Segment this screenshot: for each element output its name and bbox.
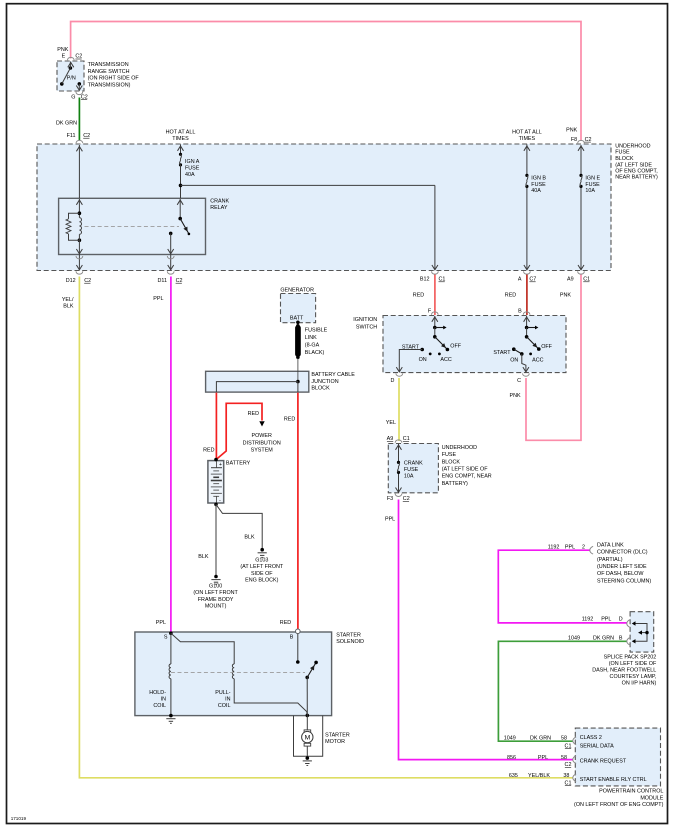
svg-text:PNK: PNK: [510, 393, 521, 399]
svg-text:OF ENG COMPT,: OF ENG COMPT,: [615, 168, 658, 174]
svg-text:BLOCK: BLOCK: [615, 156, 634, 162]
svg-text:SWITCH: SWITCH: [356, 325, 377, 331]
svg-text:BLK: BLK: [63, 304, 74, 310]
svg-text:FUSE: FUSE: [442, 452, 457, 458]
svg-text:SYSTEM: SYSTEM: [251, 448, 274, 454]
svg-text:DK GRN: DK GRN: [56, 120, 77, 126]
svg-text:IGN E: IGN E: [585, 175, 600, 181]
svg-text:RELAY: RELAY: [210, 205, 228, 211]
svg-text:856: 856: [507, 755, 516, 761]
svg-text:B12: B12: [420, 277, 430, 283]
svg-text:(PARTIAL): (PARTIAL): [597, 557, 623, 563]
svg-text:(AT LEFT SIDE: (AT LEFT SIDE: [615, 162, 652, 168]
svg-text:PNK: PNK: [566, 128, 577, 134]
svg-text:RED: RED: [413, 293, 424, 299]
svg-text:DISTRIBUTION: DISTRIBUTION: [243, 440, 281, 446]
svg-text:D12: D12: [66, 278, 76, 284]
svg-text:BLK: BLK: [244, 534, 255, 540]
svg-text:IN: IN: [161, 697, 166, 703]
svg-text:2: 2: [582, 544, 585, 550]
svg-text:YEL/: YEL/: [62, 297, 74, 303]
svg-text:F11: F11: [67, 133, 76, 139]
svg-text:ENG BLOCK): ENG BLOCK): [245, 578, 278, 584]
svg-text:YEL: YEL: [386, 420, 396, 426]
svg-text:START: START: [402, 344, 420, 350]
svg-text:SIDE OF: SIDE OF: [251, 571, 273, 577]
svg-text:HOT AT ALL: HOT AT ALL: [166, 130, 196, 136]
svg-text:P/N: P/N: [67, 76, 76, 82]
svg-text:PULL-: PULL-: [215, 690, 230, 696]
svg-text:CRANK REQUEST: CRANK REQUEST: [580, 759, 627, 765]
svg-text:CRANK: CRANK: [210, 198, 229, 204]
svg-text:CONNECTOR (DLC): CONNECTOR (DLC): [597, 550, 648, 556]
svg-text:POWERTRAIN CONTROL: POWERTRAIN CONTROL: [599, 789, 663, 795]
svg-text:SOLENOID: SOLENOID: [336, 639, 364, 645]
svg-text:STARTER: STARTER: [325, 732, 350, 738]
svg-text:G: G: [71, 94, 75, 100]
svg-text:IGN A: IGN A: [185, 159, 200, 165]
svg-text:HOT AT ALL: HOT AT ALL: [512, 130, 542, 136]
svg-text:PPL: PPL: [153, 296, 163, 302]
svg-text:START: START: [493, 350, 511, 356]
svg-text:(AT LEFT SIDE OF: (AT LEFT SIDE OF: [442, 467, 489, 473]
svg-text:D: D: [619, 617, 623, 623]
svg-text:F8: F8: [571, 137, 577, 143]
svg-text:FUSE: FUSE: [615, 150, 630, 156]
svg-text:START ENABLE RLY CTRL: START ENABLE RLY CTRL: [580, 777, 647, 783]
svg-text:OFF: OFF: [450, 344, 461, 350]
svg-text:ON I/P HARN): ON I/P HARN): [622, 681, 657, 687]
svg-text:M: M: [305, 735, 311, 742]
svg-text:1192: 1192: [548, 544, 560, 550]
svg-text:FUSE: FUSE: [585, 182, 600, 188]
svg-text:CRANK: CRANK: [404, 460, 423, 466]
svg-text:1049: 1049: [568, 635, 580, 641]
svg-text:MODULE: MODULE: [640, 795, 663, 801]
svg-text:IGNITION: IGNITION: [353, 317, 377, 323]
svg-text:635: 635: [509, 773, 518, 779]
svg-text:TIMES: TIMES: [172, 136, 189, 142]
svg-text:IGN B: IGN B: [531, 175, 546, 181]
svg-text:BLK: BLK: [198, 554, 209, 560]
svg-text:FUSIBLE: FUSIBLE: [305, 328, 328, 334]
svg-text:(ON LEFT FRONT: (ON LEFT FRONT: [193, 590, 238, 596]
svg-text:OF DASH, BELOW: OF DASH, BELOW: [597, 571, 644, 577]
svg-text:(UNDER LEFT SIDE: (UNDER LEFT SIDE: [597, 564, 647, 570]
svg-text:ON: ON: [510, 358, 518, 364]
svg-text:RED: RED: [505, 293, 516, 299]
svg-text:10A: 10A: [404, 473, 414, 479]
svg-text:1192: 1192: [582, 617, 594, 623]
svg-text:D11: D11: [158, 278, 168, 284]
svg-text:A9: A9: [567, 277, 574, 283]
svg-text:D: D: [390, 378, 394, 384]
svg-text:ACC: ACC: [532, 358, 543, 364]
svg-text:SPLICE PACK SP202: SPLICE PACK SP202: [604, 655, 657, 661]
svg-text:A: A: [518, 277, 522, 283]
svg-text:10A: 10A: [585, 188, 595, 194]
svg-text:RED: RED: [284, 416, 295, 422]
svg-text:BATTERY: BATTERY: [226, 461, 251, 467]
svg-text:DK GRN: DK GRN: [593, 635, 614, 641]
svg-text:CLASS 2: CLASS 2: [580, 735, 602, 741]
svg-text:(ON LEFT FRONT OF ENG COMPT): (ON LEFT FRONT OF ENG COMPT): [574, 802, 664, 808]
svg-text:ACC: ACC: [440, 357, 451, 363]
svg-text:YEL/BLK: YEL/BLK: [528, 773, 550, 779]
svg-text:TRANSMISSION): TRANSMISSION): [88, 82, 131, 88]
svg-text:UNDERHOOD: UNDERHOOD: [442, 445, 477, 451]
svg-text:SERIAL DATA: SERIAL DATA: [580, 743, 614, 749]
svg-text:B: B: [290, 635, 294, 641]
svg-text:40A: 40A: [531, 188, 541, 194]
svg-text:ENG COMPT, NEAR: ENG COMPT, NEAR: [442, 474, 492, 480]
svg-text:FUSE: FUSE: [404, 467, 419, 473]
svg-text:+: +: [219, 462, 222, 468]
svg-text:COIL: COIL: [218, 703, 231, 709]
svg-text:F3: F3: [387, 496, 393, 502]
svg-text:STARTER: STARTER: [336, 633, 361, 639]
svg-text:G100: G100: [209, 584, 222, 590]
svg-text:PNK: PNK: [560, 293, 571, 299]
svg-text:C: C: [517, 378, 521, 384]
svg-text:GENERATOR: GENERATOR: [280, 287, 314, 293]
svg-text:UNDERHOOD: UNDERHOOD: [615, 144, 650, 150]
svg-text:58: 58: [561, 755, 567, 761]
svg-text:FUSE: FUSE: [531, 182, 546, 188]
svg-text:(8-GA: (8-GA: [305, 343, 320, 349]
svg-text:COIL: COIL: [153, 703, 166, 709]
svg-text:B: B: [518, 309, 522, 315]
svg-text:STEERING COLUMN): STEERING COLUMN): [597, 578, 651, 584]
svg-text:BLACK): BLACK): [305, 350, 325, 356]
svg-text:OFF: OFF: [541, 344, 552, 350]
svg-text:FRAME BODY: FRAME BODY: [198, 597, 234, 603]
svg-text:BLOCK: BLOCK: [442, 459, 461, 465]
svg-text:PPL: PPL: [385, 516, 395, 522]
svg-text:58: 58: [561, 736, 567, 742]
svg-text:B: B: [619, 635, 623, 641]
svg-text:RED: RED: [248, 411, 259, 417]
svg-text:RED: RED: [280, 620, 291, 626]
svg-text:BATTERY CABLE: BATTERY CABLE: [311, 372, 355, 378]
svg-text:IN: IN: [225, 697, 230, 703]
svg-text:RANGE SWITCH: RANGE SWITCH: [88, 69, 130, 75]
svg-text:BATT: BATT: [290, 316, 304, 322]
svg-text:E: E: [62, 54, 66, 60]
svg-text:PPL: PPL: [601, 617, 611, 623]
svg-text:PPL: PPL: [565, 544, 575, 550]
svg-text:TRANSMISSION: TRANSMISSION: [88, 62, 129, 68]
svg-text:POWER: POWER: [252, 433, 272, 439]
svg-text:(ON RIGHT SIDE OF: (ON RIGHT SIDE OF: [88, 76, 140, 82]
svg-text:ON: ON: [419, 357, 427, 363]
svg-text:LINK: LINK: [305, 335, 317, 341]
svg-text:DK GRN: DK GRN: [530, 736, 551, 742]
svg-text:DATA LINK: DATA LINK: [597, 542, 624, 548]
svg-text:G103: G103: [255, 557, 268, 563]
svg-text:MOUNT): MOUNT): [205, 604, 227, 610]
svg-text:S: S: [164, 635, 168, 641]
svg-text:COURTESY LAMP,: COURTESY LAMP,: [610, 674, 657, 680]
svg-text:NEAR BATTERY): NEAR BATTERY): [615, 175, 658, 181]
svg-text:MOTOR: MOTOR: [325, 739, 345, 745]
svg-text:BLOCK: BLOCK: [311, 385, 330, 391]
svg-text:38: 38: [563, 773, 569, 779]
svg-text:BATTERY): BATTERY): [442, 481, 468, 487]
svg-text:171019: 171019: [11, 816, 27, 821]
svg-text:FUSE: FUSE: [185, 166, 200, 172]
svg-text:(ON LEFT SIDE OF: (ON LEFT SIDE OF: [609, 661, 657, 667]
svg-text:1049: 1049: [504, 736, 516, 742]
svg-text:RED: RED: [203, 447, 214, 453]
svg-text:40A: 40A: [185, 172, 195, 178]
svg-text:TIMES: TIMES: [519, 136, 536, 142]
svg-text:PPL: PPL: [538, 755, 548, 761]
svg-text:PNK: PNK: [57, 47, 68, 53]
svg-text:JUNCTION: JUNCTION: [311, 379, 338, 385]
svg-text:(AT LEFT FRONT: (AT LEFT FRONT: [240, 564, 284, 570]
svg-text:HOLD-: HOLD-: [149, 690, 166, 696]
svg-text:PPL: PPL: [156, 620, 166, 626]
svg-text:DASH, NEAR FOOTWELL: DASH, NEAR FOOTWELL: [592, 668, 656, 674]
